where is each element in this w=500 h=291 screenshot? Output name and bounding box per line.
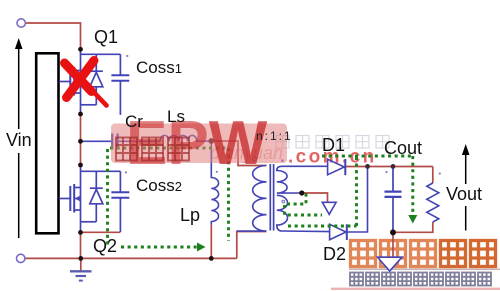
transformer polarity dot primary	[253, 157, 257, 161]
label D1	[322, 135, 345, 156]
wire: left rail Q1 source to Q2 drain	[80, 114, 82, 165]
wire: output positive rail D1 cathode to load	[346, 166, 433, 168]
gray-purple slogan row	[350, 273, 491, 286]
transformer T1 secondary bottom winding	[277, 195, 330, 231]
node dots	[78, 47, 396, 261]
ground: center-tap open triangle	[322, 202, 336, 214]
label Q2	[93, 236, 117, 257]
green dashed current path secondary loop	[285, 156, 413, 226]
diode D1	[328, 159, 346, 175]
ground: main input ground	[70, 258, 92, 280]
wire: bottom return rail	[25, 257, 237, 259]
label Coss1	[136, 58, 182, 78]
label Vout	[445, 184, 483, 205]
node markers (tiny)	[125, 55, 441, 175]
node B: input terminal bottom	[17, 254, 25, 262]
label Ls	[167, 107, 185, 127]
capacitor Cr with branch wire	[81, 134, 161, 150]
green arrow head secondary loop	[408, 215, 417, 224]
label Cr	[125, 112, 143, 132]
transformer polarity dot secondary top	[281, 159, 284, 162]
wire: load bottom lead and output return	[393, 222, 433, 232]
green dashed current path primary loop	[108, 148, 229, 247]
wire: Q2 source to bottom rail	[80, 233, 82, 259]
wire: Ls node to transformer primary top	[211, 141, 266, 166]
orange training watermark big characters	[349, 241, 500, 270]
wire: load top lead	[432, 167, 434, 184]
wire: Q2 source to Coss2 bottom	[81, 231, 121, 233]
arrow: Vin polarity arrow	[15, 38, 23, 238]
wire: Cout bottom to ground triangle	[392, 233, 394, 258]
wire: center tap to ground triangle	[302, 193, 328, 202]
label n:1:1	[256, 129, 293, 143]
capacitor Cout	[385, 167, 402, 233]
transistor Q2	[59, 165, 129, 233]
svg-text:EPW: EPW	[126, 109, 268, 178]
inductor Lp	[211, 141, 218, 225]
label Cout	[384, 138, 422, 159]
label D2	[323, 244, 346, 265]
inductor Ls	[160, 135, 211, 141]
diode D2	[330, 224, 347, 240]
wire: primary bottom lead	[237, 232, 267, 259]
transformer T1 primary winding	[237, 166, 267, 232]
ground: output open triangle	[378, 257, 403, 271]
wire: secondary top lead to D1	[282, 165, 328, 167]
voltage source Vin bar	[36, 53, 58, 233]
X mark over Q1 body diode	[65, 61, 107, 106]
arrow: Vout polarity arrow	[462, 144, 470, 231]
green arrow head primary loop	[197, 243, 206, 252]
wire: top input wire from terminal to Q1 drain	[25, 23, 433, 258]
faint gray site watermark row	[276, 136, 389, 149]
label Coss2	[136, 176, 182, 196]
resistor load RL zigzag	[427, 183, 439, 222]
pink bottom rule	[331, 288, 500, 290]
transformer T1 core	[270, 164, 273, 231]
transistor Q1	[59, 48, 129, 116]
label Q1	[94, 27, 118, 48]
transformer T1 secondary top winding	[277, 166, 302, 193]
label Lp	[180, 205, 200, 226]
node A: input terminal top	[17, 19, 25, 27]
label Vin	[5, 130, 33, 151]
wire: Lp bottom lead	[210, 225, 212, 259]
transformer polarity dot secondary bottom	[282, 200, 285, 203]
wire: D2 cathode up to positive rail	[347, 167, 368, 233]
